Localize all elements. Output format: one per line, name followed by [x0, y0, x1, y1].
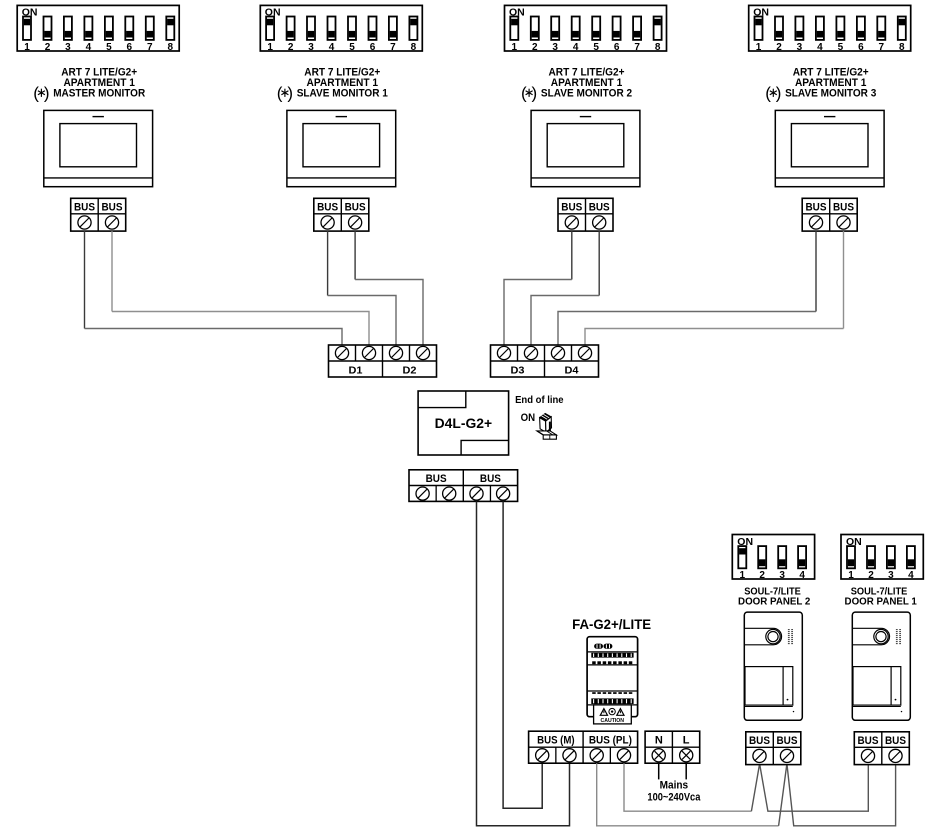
- svg-text:SLAVE MONITOR 1: SLAVE MONITOR 1: [297, 88, 388, 100]
- svg-text:4: 4: [799, 570, 805, 581]
- terminal block D1 D2: [329, 345, 437, 377]
- svg-text:D4: D4: [565, 364, 579, 376]
- svg-text:(: (: [277, 84, 283, 103]
- svg-text:2: 2: [868, 570, 874, 581]
- terminal block BUS BUS monitor 4: [802, 198, 857, 231]
- svg-text:1: 1: [848, 570, 854, 581]
- svg-text:2: 2: [288, 42, 294, 53]
- svg-text:100~240Vca: 100~240Vca: [647, 791, 701, 803]
- svg-text:BUS: BUS: [561, 202, 582, 214]
- terminal block BUS BUS monitor 2: [314, 198, 369, 231]
- svg-text:(: (: [33, 84, 39, 103]
- wire BUS (PL) right to door panels (rail A): [624, 763, 751, 811]
- wire monitor bus 3 to distributor: [327, 231, 329, 295]
- svg-text:BUS: BUS: [102, 202, 123, 214]
- svg-text:(: (: [765, 84, 771, 103]
- svg-text:8: 8: [899, 42, 905, 53]
- svg-text:BUS: BUS: [749, 735, 770, 747]
- svg-text:2: 2: [532, 42, 538, 53]
- svg-text:3: 3: [888, 570, 894, 581]
- svg-text:N: N: [655, 734, 663, 746]
- svg-text:3: 3: [65, 42, 71, 53]
- wire D4L BUS to FA-G2+ BUS(M) left: [503, 501, 542, 808]
- svg-text:D1: D1: [349, 364, 363, 376]
- svg-text:BUS: BUS: [426, 473, 447, 485]
- svg-text:BUS: BUS: [480, 473, 501, 485]
- label monitor 4: [765, 66, 876, 102]
- svg-text:SLAVE MONITOR 2: SLAVE MONITOR 2: [541, 88, 632, 100]
- jumper (end of line, ON position): [537, 413, 557, 439]
- wire monitor bus 6 to distributor: [598, 231, 600, 295]
- wire BUS (PL) left to door panels (rail B): [597, 763, 779, 826]
- wire monitor bus 7 to distributor: [815, 231, 817, 311]
- svg-text:5: 5: [838, 42, 844, 53]
- wire L to mains: [685, 763, 687, 779]
- distributor D4L-G2+: [418, 391, 509, 455]
- svg-text:D2: D2: [403, 364, 417, 376]
- svg-text:BUS: BUS: [74, 202, 95, 214]
- monitor M4: [775, 110, 884, 186]
- label monitor 3: [521, 66, 632, 102]
- svg-text:1: 1: [740, 570, 746, 581]
- svg-text:5: 5: [106, 42, 112, 53]
- DIP switch block monitor 2: [260, 5, 422, 52]
- svg-text:(: (: [521, 84, 527, 103]
- monitor M2: [287, 110, 396, 186]
- wire monitor bus 1 to distributor: [84, 231, 86, 328]
- wire monitor bus 4 to distributor: [354, 231, 356, 279]
- svg-text:8: 8: [655, 42, 661, 53]
- monitor M1: [44, 110, 153, 186]
- svg-text:7: 7: [634, 42, 640, 53]
- svg-text:4: 4: [573, 42, 579, 53]
- svg-text:BUS: BUS: [777, 735, 798, 747]
- wire monitor bus 2 to distributor: [111, 231, 113, 311]
- wire monitor bus 8 to distributor: [843, 231, 845, 328]
- svg-text:6: 6: [858, 42, 864, 53]
- wire D4L BUS to FA-G2+ BUS(M) right: [477, 501, 570, 825]
- DIP switch block monitor 1: [17, 5, 179, 52]
- label monitor 2: [277, 66, 388, 102]
- door panel 2 (SOUL-7/LITE): [744, 612, 802, 720]
- power supply FA-G2+/LITE module: [587, 637, 638, 717]
- svg-text:3: 3: [308, 42, 314, 53]
- svg-text:1: 1: [267, 42, 273, 53]
- svg-text:): ): [44, 84, 50, 103]
- svg-text:3: 3: [552, 42, 558, 53]
- DIP switch block monitor 4: [749, 5, 911, 52]
- caution label (FA module): [594, 705, 632, 724]
- svg-text:6: 6: [370, 42, 376, 53]
- svg-text:4: 4: [329, 42, 335, 53]
- svg-text:End of line: End of line: [515, 394, 564, 406]
- svg-text:1: 1: [512, 42, 518, 53]
- svg-text:8: 8: [168, 42, 174, 53]
- terminal block N L (mains): [645, 731, 700, 763]
- svg-text:6: 6: [127, 42, 133, 53]
- svg-text:BUS: BUS: [858, 735, 879, 747]
- door panel 1 (SOUL-7/LITE): [852, 612, 910, 720]
- svg-text:L: L: [683, 734, 690, 746]
- svg-text:8: 8: [411, 42, 417, 53]
- svg-text:BUS: BUS: [833, 202, 854, 214]
- wire monitor bus 5 to distributor: [571, 231, 573, 279]
- svg-text:D4L-G2+: D4L-G2+: [435, 416, 493, 431]
- svg-text:): ): [776, 84, 782, 103]
- monitor M3: [531, 110, 640, 186]
- svg-text:BUS: BUS: [885, 735, 906, 747]
- terminal block BUS BUS door panel 1: [854, 732, 909, 765]
- svg-text:2: 2: [45, 42, 51, 53]
- terminal block BUS BUS monitor 3: [558, 198, 613, 231]
- label monitor 1: [33, 66, 145, 102]
- svg-text:CAUTION: CAUTION: [601, 718, 625, 724]
- svg-text:): ): [532, 84, 538, 103]
- svg-text:7: 7: [147, 42, 153, 53]
- svg-text:FA-G2+/LITE: FA-G2+/LITE: [572, 617, 651, 632]
- svg-text:1: 1: [24, 42, 30, 53]
- svg-text:BUS (PL): BUS (PL): [589, 734, 632, 746]
- svg-text:BUS: BUS: [806, 202, 827, 214]
- svg-text:Mains: Mains: [660, 780, 689, 792]
- svg-text:BUS: BUS: [317, 202, 338, 214]
- svg-text:DOOR PANEL 2: DOOR PANEL 2: [738, 596, 810, 608]
- svg-text:ON: ON: [521, 412, 536, 424]
- svg-text:4: 4: [817, 42, 823, 53]
- svg-text:3: 3: [779, 570, 785, 581]
- terminal block BUS BUS door panel 2: [746, 732, 801, 765]
- svg-text:SLAVE MONITOR 3: SLAVE MONITOR 3: [785, 88, 876, 100]
- svg-text:7: 7: [879, 42, 885, 53]
- terminal block BUS BUS (D4L-G2+ output): [409, 470, 518, 502]
- svg-text:2: 2: [776, 42, 782, 53]
- wire rail A rise to door panel 2 BUS left: [751, 764, 868, 812]
- svg-text:6: 6: [614, 42, 620, 53]
- label Mains 100~240Vca: [647, 780, 701, 804]
- DIP switch block door panel 2: [732, 535, 814, 582]
- svg-text:BUS: BUS: [589, 202, 610, 214]
- svg-text:4: 4: [86, 42, 92, 53]
- svg-text:5: 5: [593, 42, 599, 53]
- svg-text:4: 4: [908, 570, 914, 581]
- svg-text:): ): [287, 84, 293, 103]
- svg-text:5: 5: [349, 42, 355, 53]
- svg-text:MASTER MONITOR: MASTER MONITOR: [53, 88, 145, 100]
- svg-text:BUS: BUS: [345, 202, 366, 214]
- svg-text:DOOR PANEL 1: DOOR PANEL 1: [845, 596, 917, 608]
- DIP switch block door panel 1: [841, 535, 923, 582]
- wire N to mains: [658, 763, 660, 779]
- terminal block BUS BUS monitor 1: [71, 198, 126, 231]
- label door panel 2: [738, 586, 810, 608]
- wire rail B rise to door panel 2 BUS right: [779, 764, 896, 826]
- svg-text:7: 7: [390, 42, 396, 53]
- terminal block BUS (M) / BUS (PL): [529, 731, 638, 763]
- svg-text:3: 3: [797, 42, 803, 53]
- DIP switch block monitor 3: [505, 5, 667, 52]
- svg-text:2: 2: [759, 570, 765, 581]
- terminal block D3 D4: [491, 345, 599, 377]
- svg-text:BUS (M): BUS (M): [537, 734, 575, 746]
- svg-text:1: 1: [756, 42, 762, 53]
- label door panel 1: [845, 586, 917, 608]
- svg-text:D3: D3: [511, 364, 525, 376]
